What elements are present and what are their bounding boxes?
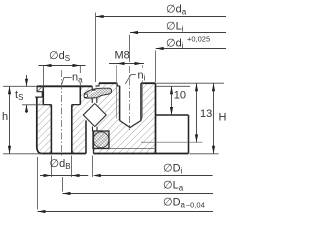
leader ni — [125, 75, 136, 85]
svg-text:+0,025: +0,025 — [187, 35, 210, 44]
extension lines right top — [157, 82, 225, 84]
housing shoulder step outline — [35, 86, 42, 97]
counterbore floor — [43, 104, 80, 106]
shaft shoulder step outline — [156, 115, 189, 154]
dimension M8 line — [109, 62, 144, 65]
inner ring top face left of M8 hole — [99, 82, 117, 84]
svg-text:10: 10 — [174, 90, 186, 102]
dimension ∅dS line — [39, 64, 86, 90]
dimension 10 — [170, 86, 173, 115]
housing corner chamfer diagonal — [37, 87, 42, 92]
outer ring hatched section right of bolt hole — [72, 86, 92, 153]
dimension tS — [22, 75, 43, 113]
dimension ∅La — [63, 177, 214, 195]
M8 drill cone bottom — [120, 121, 141, 128]
dimension h — [3, 86, 41, 154]
outer ring OD face and bottom chamfer — [37, 97, 42, 153]
cage channel above roller — [92, 97, 97, 105]
cage channel below roller — [93, 126, 98, 131]
inner ring bottom face — [94, 153, 189, 155]
inner ring left face at bottom — [93, 131, 95, 154]
crossed roller (square section) — [83, 104, 106, 127]
bolt through-hole dB walls — [50, 105, 52, 154]
extension stub for 13 dimension — [141, 141, 203, 143]
svg-text:∅di: ∅di — [166, 38, 184, 51]
M8 hole mouth chamfer — [117, 83, 119, 86]
M8 tapped hole walls — [119, 86, 121, 121]
dimension ∅da line — [96, 13, 227, 83]
svg-text:∅Di: ∅Di — [163, 163, 183, 176]
svg-text:13: 13 — [200, 108, 212, 120]
roller end view cage pocket — [93, 131, 109, 149]
outer ring top face — [37, 85, 92, 87]
leader na — [62, 78, 72, 85]
dimension 13 — [195, 83, 198, 142]
svg-text:h: h — [2, 111, 8, 123]
outer ring hatched section left of bolt hole — [37, 86, 52, 153]
svg-text:H: H — [219, 112, 227, 124]
counterbore dS walls — [42, 86, 44, 104]
svg-text:–0,04: –0,04 — [186, 201, 205, 210]
dimension ∅Da — [38, 157, 214, 213]
dimension ∅Li line — [130, 31, 227, 62]
M8 thread major diameter lines — [117, 65, 143, 119]
outer ring bottom face — [42, 153, 86, 155]
labyrinth step at seal — [92, 83, 99, 90]
svg-text:M8: M8 — [115, 50, 130, 62]
svg-text:∅Li: ∅Li — [166, 21, 184, 34]
inner ring bottom recess line — [109, 147, 156, 149]
seal — [84, 88, 112, 98]
dB hole chamfer diagonals — [49, 105, 75, 154]
dimension ∅dB and ∅Di shared line — [40, 156, 213, 178]
centerline of M8 hole — [129, 66, 131, 130]
outer ring bore face below raceway — [85, 120, 87, 153]
centerline of bolt holes — [61, 70, 63, 157]
inner ring top face right of M8 hole — [141, 82, 156, 84]
inner ring bore face — [155, 83, 157, 153]
inner ring hatched section — [94, 83, 156, 153]
raceway V-groove white area — [82, 103, 107, 128]
dimension ∅di line — [156, 47, 227, 82]
dimension H — [190, 83, 219, 154]
